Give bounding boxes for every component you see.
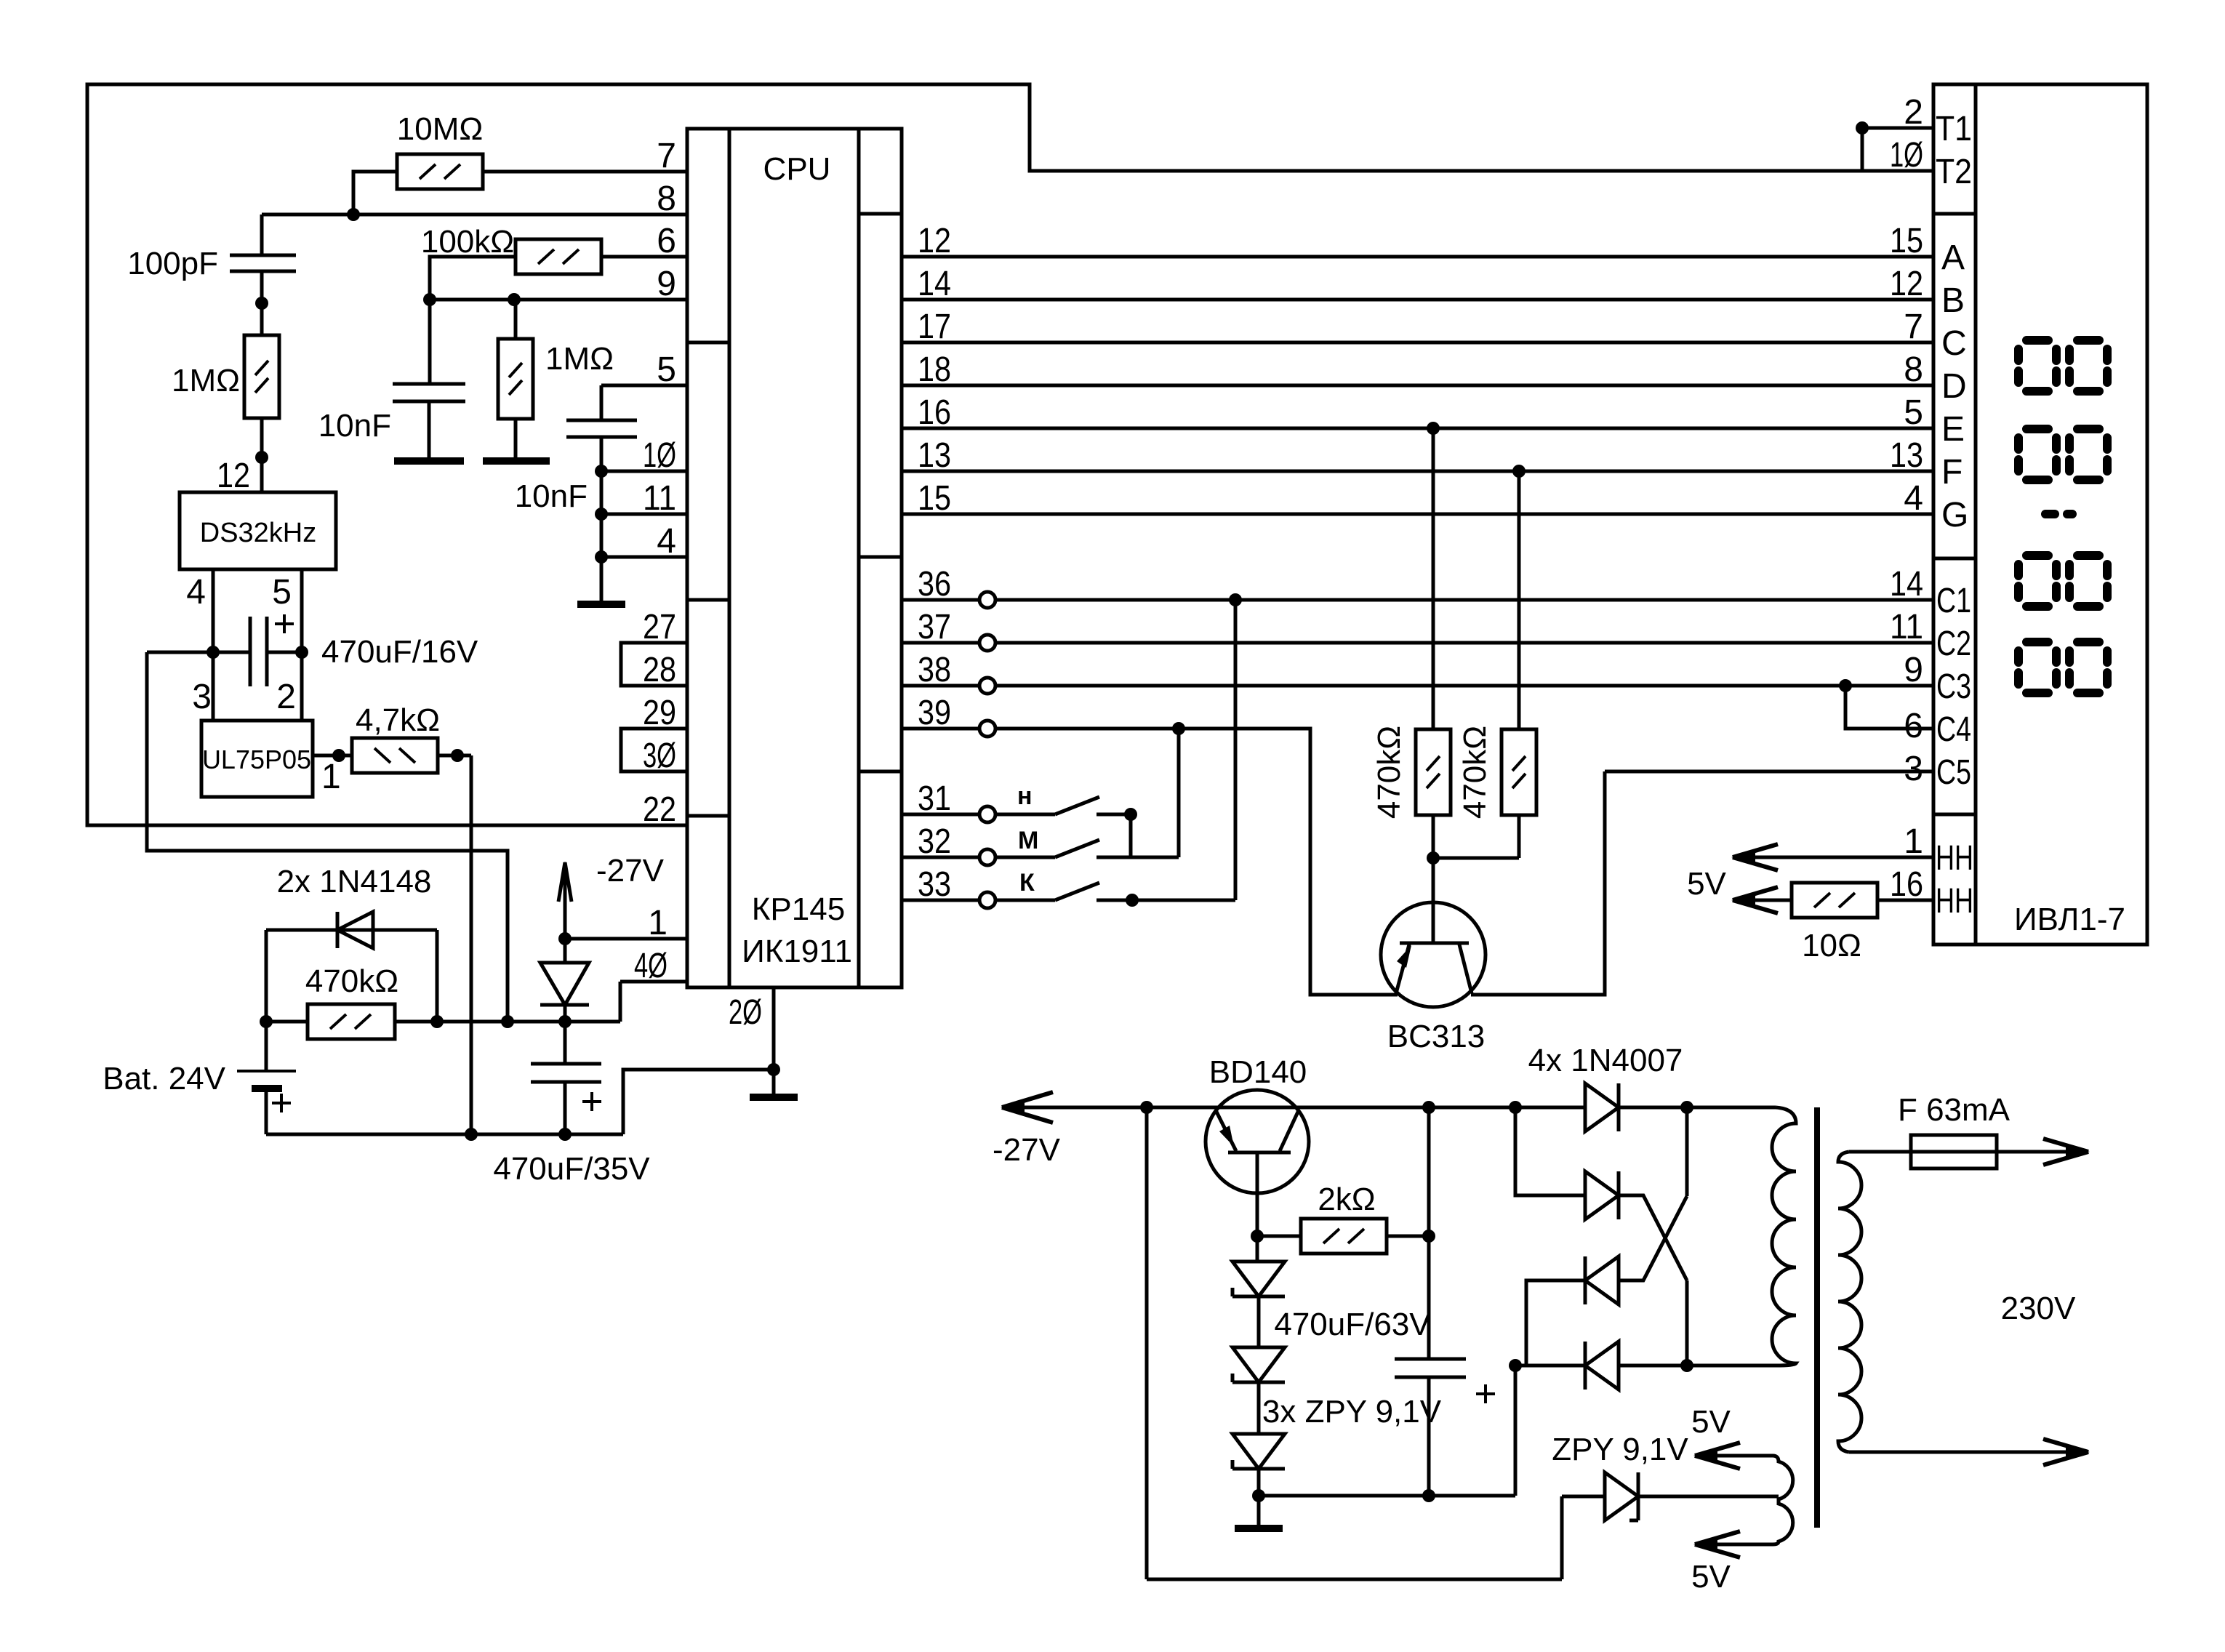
svg-text:8: 8 xyxy=(1904,350,1923,389)
svg-text:9: 9 xyxy=(657,265,676,303)
svg-text:1: 1 xyxy=(321,758,341,796)
svg-text:8: 8 xyxy=(657,180,676,218)
svg-text:11: 11 xyxy=(643,479,676,518)
svg-text:UL75P05: UL75P05 xyxy=(202,745,311,774)
svg-text:14: 14 xyxy=(918,265,951,303)
svg-text:T2: T2 xyxy=(1936,153,1972,191)
svg-text:39: 39 xyxy=(918,694,951,732)
svg-text:3Ø: 3Ø xyxy=(643,737,676,775)
svg-text:15: 15 xyxy=(918,479,951,518)
svg-text:C4: C4 xyxy=(1936,710,1971,749)
svg-text:5: 5 xyxy=(1904,393,1923,432)
svg-text:2: 2 xyxy=(276,678,296,716)
svg-text:A: A xyxy=(1941,238,1965,277)
svg-text:12: 12 xyxy=(217,457,250,495)
svg-text:1MΩ: 1MΩ xyxy=(172,363,240,398)
svg-text:470kΩ: 470kΩ xyxy=(305,963,398,999)
svg-text:B: B xyxy=(1941,281,1965,320)
svg-text:16: 16 xyxy=(1890,865,1923,904)
svg-text:3x ZPY 9,1V: 3x ZPY 9,1V xyxy=(1262,1394,1442,1430)
svg-text:28: 28 xyxy=(643,651,676,689)
svg-text:G: G xyxy=(1941,496,1968,534)
svg-text:470uF/63V: 470uF/63V xyxy=(1274,1307,1431,1342)
svg-text:н: н xyxy=(1017,782,1033,810)
svg-text:-27V: -27V xyxy=(596,853,665,889)
svg-text:1Ø: 1Ø xyxy=(1890,136,1923,175)
svg-text:ИК1911: ИК1911 xyxy=(742,934,852,969)
svg-text:470uF/16V: 470uF/16V xyxy=(321,634,478,670)
svg-text:10MΩ: 10MΩ xyxy=(397,111,484,147)
svg-text:-27V: -27V xyxy=(993,1132,1061,1168)
svg-text:М: М xyxy=(1018,827,1038,854)
svg-text:5V: 5V xyxy=(1691,1559,1731,1595)
svg-text:1MΩ: 1MΩ xyxy=(545,341,614,377)
svg-text:36: 36 xyxy=(918,565,951,604)
svg-text:DS32kHz: DS32kHz xyxy=(200,518,317,548)
svg-text:29: 29 xyxy=(643,694,676,732)
svg-text:15: 15 xyxy=(1890,222,1923,260)
svg-text:27: 27 xyxy=(643,608,676,646)
svg-text:КР145: КР145 xyxy=(752,891,845,927)
svg-text:7: 7 xyxy=(657,137,676,175)
svg-text:1: 1 xyxy=(1904,822,1923,861)
svg-text:5: 5 xyxy=(272,573,292,612)
svg-text:13: 13 xyxy=(1890,436,1923,475)
svg-text:4: 4 xyxy=(657,522,676,561)
svg-text:12: 12 xyxy=(918,222,951,260)
svg-text:2x 1N4148: 2x 1N4148 xyxy=(277,864,432,899)
svg-text:C: C xyxy=(1941,324,1967,363)
svg-text:14: 14 xyxy=(1890,565,1923,604)
svg-text:CPU: CPU xyxy=(763,151,831,187)
svg-text:C3: C3 xyxy=(1936,667,1971,706)
svg-text:3: 3 xyxy=(192,678,212,716)
svg-text:230V: 230V xyxy=(2001,1291,2076,1326)
svg-text:32: 32 xyxy=(918,822,951,861)
svg-text:4,7kΩ: 4,7kΩ xyxy=(356,702,440,738)
svg-text:470uF/35V: 470uF/35V xyxy=(493,1151,650,1187)
svg-text:17: 17 xyxy=(918,308,951,346)
svg-text:1: 1 xyxy=(648,904,667,942)
svg-text:C2: C2 xyxy=(1936,625,1971,663)
svg-text:НН: НН xyxy=(1936,839,1973,878)
svg-text:5: 5 xyxy=(657,350,676,389)
svg-text:F 63mA: F 63mA xyxy=(1898,1092,2010,1128)
svg-text:13: 13 xyxy=(918,436,951,475)
svg-text:31: 31 xyxy=(918,779,951,818)
svg-text:НН: НН xyxy=(1936,882,1973,921)
svg-text:470kΩ: 470kΩ xyxy=(1371,726,1407,819)
svg-text:6: 6 xyxy=(657,222,676,260)
svg-text:9: 9 xyxy=(1904,651,1923,689)
svg-text:1Ø: 1Ø xyxy=(643,436,676,475)
svg-text:11: 11 xyxy=(1890,608,1923,646)
svg-text:37: 37 xyxy=(918,608,951,646)
svg-text:T1: T1 xyxy=(1936,110,1972,148)
svg-text:33: 33 xyxy=(918,865,951,904)
svg-text:470kΩ: 470kΩ xyxy=(1457,726,1493,819)
svg-text:4: 4 xyxy=(1904,479,1923,518)
svg-text:38: 38 xyxy=(918,651,951,689)
svg-text:C5: C5 xyxy=(1936,753,1971,792)
svg-text:К: К xyxy=(1019,869,1035,897)
svg-text:5V: 5V xyxy=(1691,1404,1731,1440)
svg-text:5V: 5V xyxy=(1687,866,1726,902)
svg-text:10Ω: 10Ω xyxy=(1802,928,1861,963)
svg-text:Bat. 24V: Bat. 24V xyxy=(103,1061,225,1096)
svg-text:ZPY 9,1V: ZPY 9,1V xyxy=(1552,1432,1688,1467)
svg-text:2kΩ: 2kΩ xyxy=(1318,1182,1375,1217)
svg-text:18: 18 xyxy=(918,350,951,389)
svg-text:3: 3 xyxy=(1904,750,1923,788)
svg-text:12: 12 xyxy=(1890,265,1923,303)
svg-text:10nF: 10nF xyxy=(318,408,391,444)
svg-text:4: 4 xyxy=(186,573,206,612)
svg-text:22: 22 xyxy=(643,790,676,829)
svg-text:4Ø: 4Ø xyxy=(634,947,667,985)
svg-text:7: 7 xyxy=(1904,308,1923,346)
svg-text:F: F xyxy=(1941,453,1963,492)
svg-text:BD140: BD140 xyxy=(1209,1054,1307,1090)
svg-text:C1: C1 xyxy=(1936,582,1971,620)
svg-text:10nF: 10nF xyxy=(515,478,588,514)
svg-text:D: D xyxy=(1941,367,1967,406)
svg-text:2: 2 xyxy=(1904,93,1923,132)
svg-text:BC313: BC313 xyxy=(1387,1019,1486,1054)
svg-text:100pF: 100pF xyxy=(127,246,218,281)
svg-text:ИВЛ1-7: ИВЛ1-7 xyxy=(2014,902,2125,937)
svg-text:E: E xyxy=(1941,410,1965,449)
svg-text:2Ø: 2Ø xyxy=(729,993,762,1032)
svg-text:16: 16 xyxy=(918,393,951,432)
svg-text:100kΩ: 100kΩ xyxy=(421,224,514,260)
svg-text:4x 1N4007: 4x 1N4007 xyxy=(1528,1043,1683,1078)
svg-text:6: 6 xyxy=(1904,707,1923,745)
